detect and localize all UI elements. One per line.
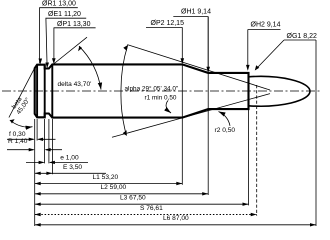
label G1 leader + right extension [256,40,316,70]
svg-text:L1 53,20: L1 53,20 [93,174,119,181]
extension line bevel end (f) [36,119,38,141]
f dimension [7,138,56,140]
svg-text:E 3,50: E 3,50 [63,164,82,171]
R dimension [7,149,62,151]
rim rear edge [36,65,38,118]
svg-text:L3 67,50: L3 67,50 [120,195,146,202]
e dimension [26,161,88,163]
case outline [35,64,249,117]
rim front edge [44,65,46,118]
extension line head face [34,119,36,226]
centerline [2,90,322,92]
svg-text:R 1,40: R 1,40 [8,138,28,145]
label H1 leader [173,17,208,72]
delta taper construction line [53,37,87,64]
label H2 leader [248,30,281,70]
extension line bullet tip (L6) [315,40,317,226]
svg-text:ØP2 12,15: ØP2 12,15 [151,20,185,27]
label P2 leader [146,27,182,63]
svg-text:f 0,30: f 0,30 [9,131,26,138]
alpha angle arc [121,45,128,135]
svg-text:r1 min 0,50: r1 min 0,50 [145,94,177,101]
L1 dimension [35,183,183,185]
beta label [10,92,32,116]
svg-text:L6 87,00: L6 87,00 [163,215,189,222]
extension line case mouth (L3) [248,110,250,206]
svg-text:ØP1 13,30: ØP1 13,30 [57,21,91,28]
groove-body edge [51,64,53,117]
E dimension [35,172,106,174]
alpha construction line bottom [112,94,270,138]
delta angle arc [79,46,101,89]
svg-text:ØH1 9,14: ØH1 9,14 [181,9,211,16]
alpha arc top arrowhead [123,45,128,51]
label R1 leader [39,8,78,64]
svg-text:ØR1 13,00: ØR1 13,00 [42,1,76,8]
svg-text:r2 0,50: r2 0,50 [215,127,236,134]
extension line S reference (dashed) [256,85,258,216]
bullet ogive [249,76,311,106]
r2 leader [219,112,231,126]
label E1 leader [46,18,87,67]
alpha arc bottom arrowhead [123,130,127,136]
svg-text:ØG1 8,22: ØG1 8,22 [287,33,317,40]
extension line body start (E) [51,119,53,174]
svg-text:S 76,61: S 76,61 [140,205,163,212]
extension line shoulder start (L1/P2) [181,65,183,185]
beta angle arc [10,120,33,127]
L3 dimension [35,203,249,205]
L2 dimension [35,193,209,195]
extension line neck start (L2/H1) [207,17,209,195]
svg-text:delta 43,70': delta 43,70' [58,81,92,88]
r1 leader [166,101,171,114]
S dimension (dotted) [35,214,257,216]
svg-text:e 1,00: e 1,00 [60,155,79,162]
beta bevel construction line [9,68,35,117]
svg-text:ØE1 11,20: ØE1 11,20 [48,11,81,18]
label P1 leader [54,28,96,63]
svg-text:L2 59,00: L2 59,00 [101,184,127,191]
svg-text:ØH2 9,14: ØH2 9,14 [251,21,281,28]
L6 dimension [35,224,316,226]
alpha construction line top [127,45,270,90]
svg-text:alpha 29° 05' 34,0": alpha 29° 05' 34,0" [125,84,179,92]
delta arc top arrowhead [78,46,82,51]
extension line rim front (R/e) [44,119,46,163]
extension line groove end (e) [48,119,50,163]
